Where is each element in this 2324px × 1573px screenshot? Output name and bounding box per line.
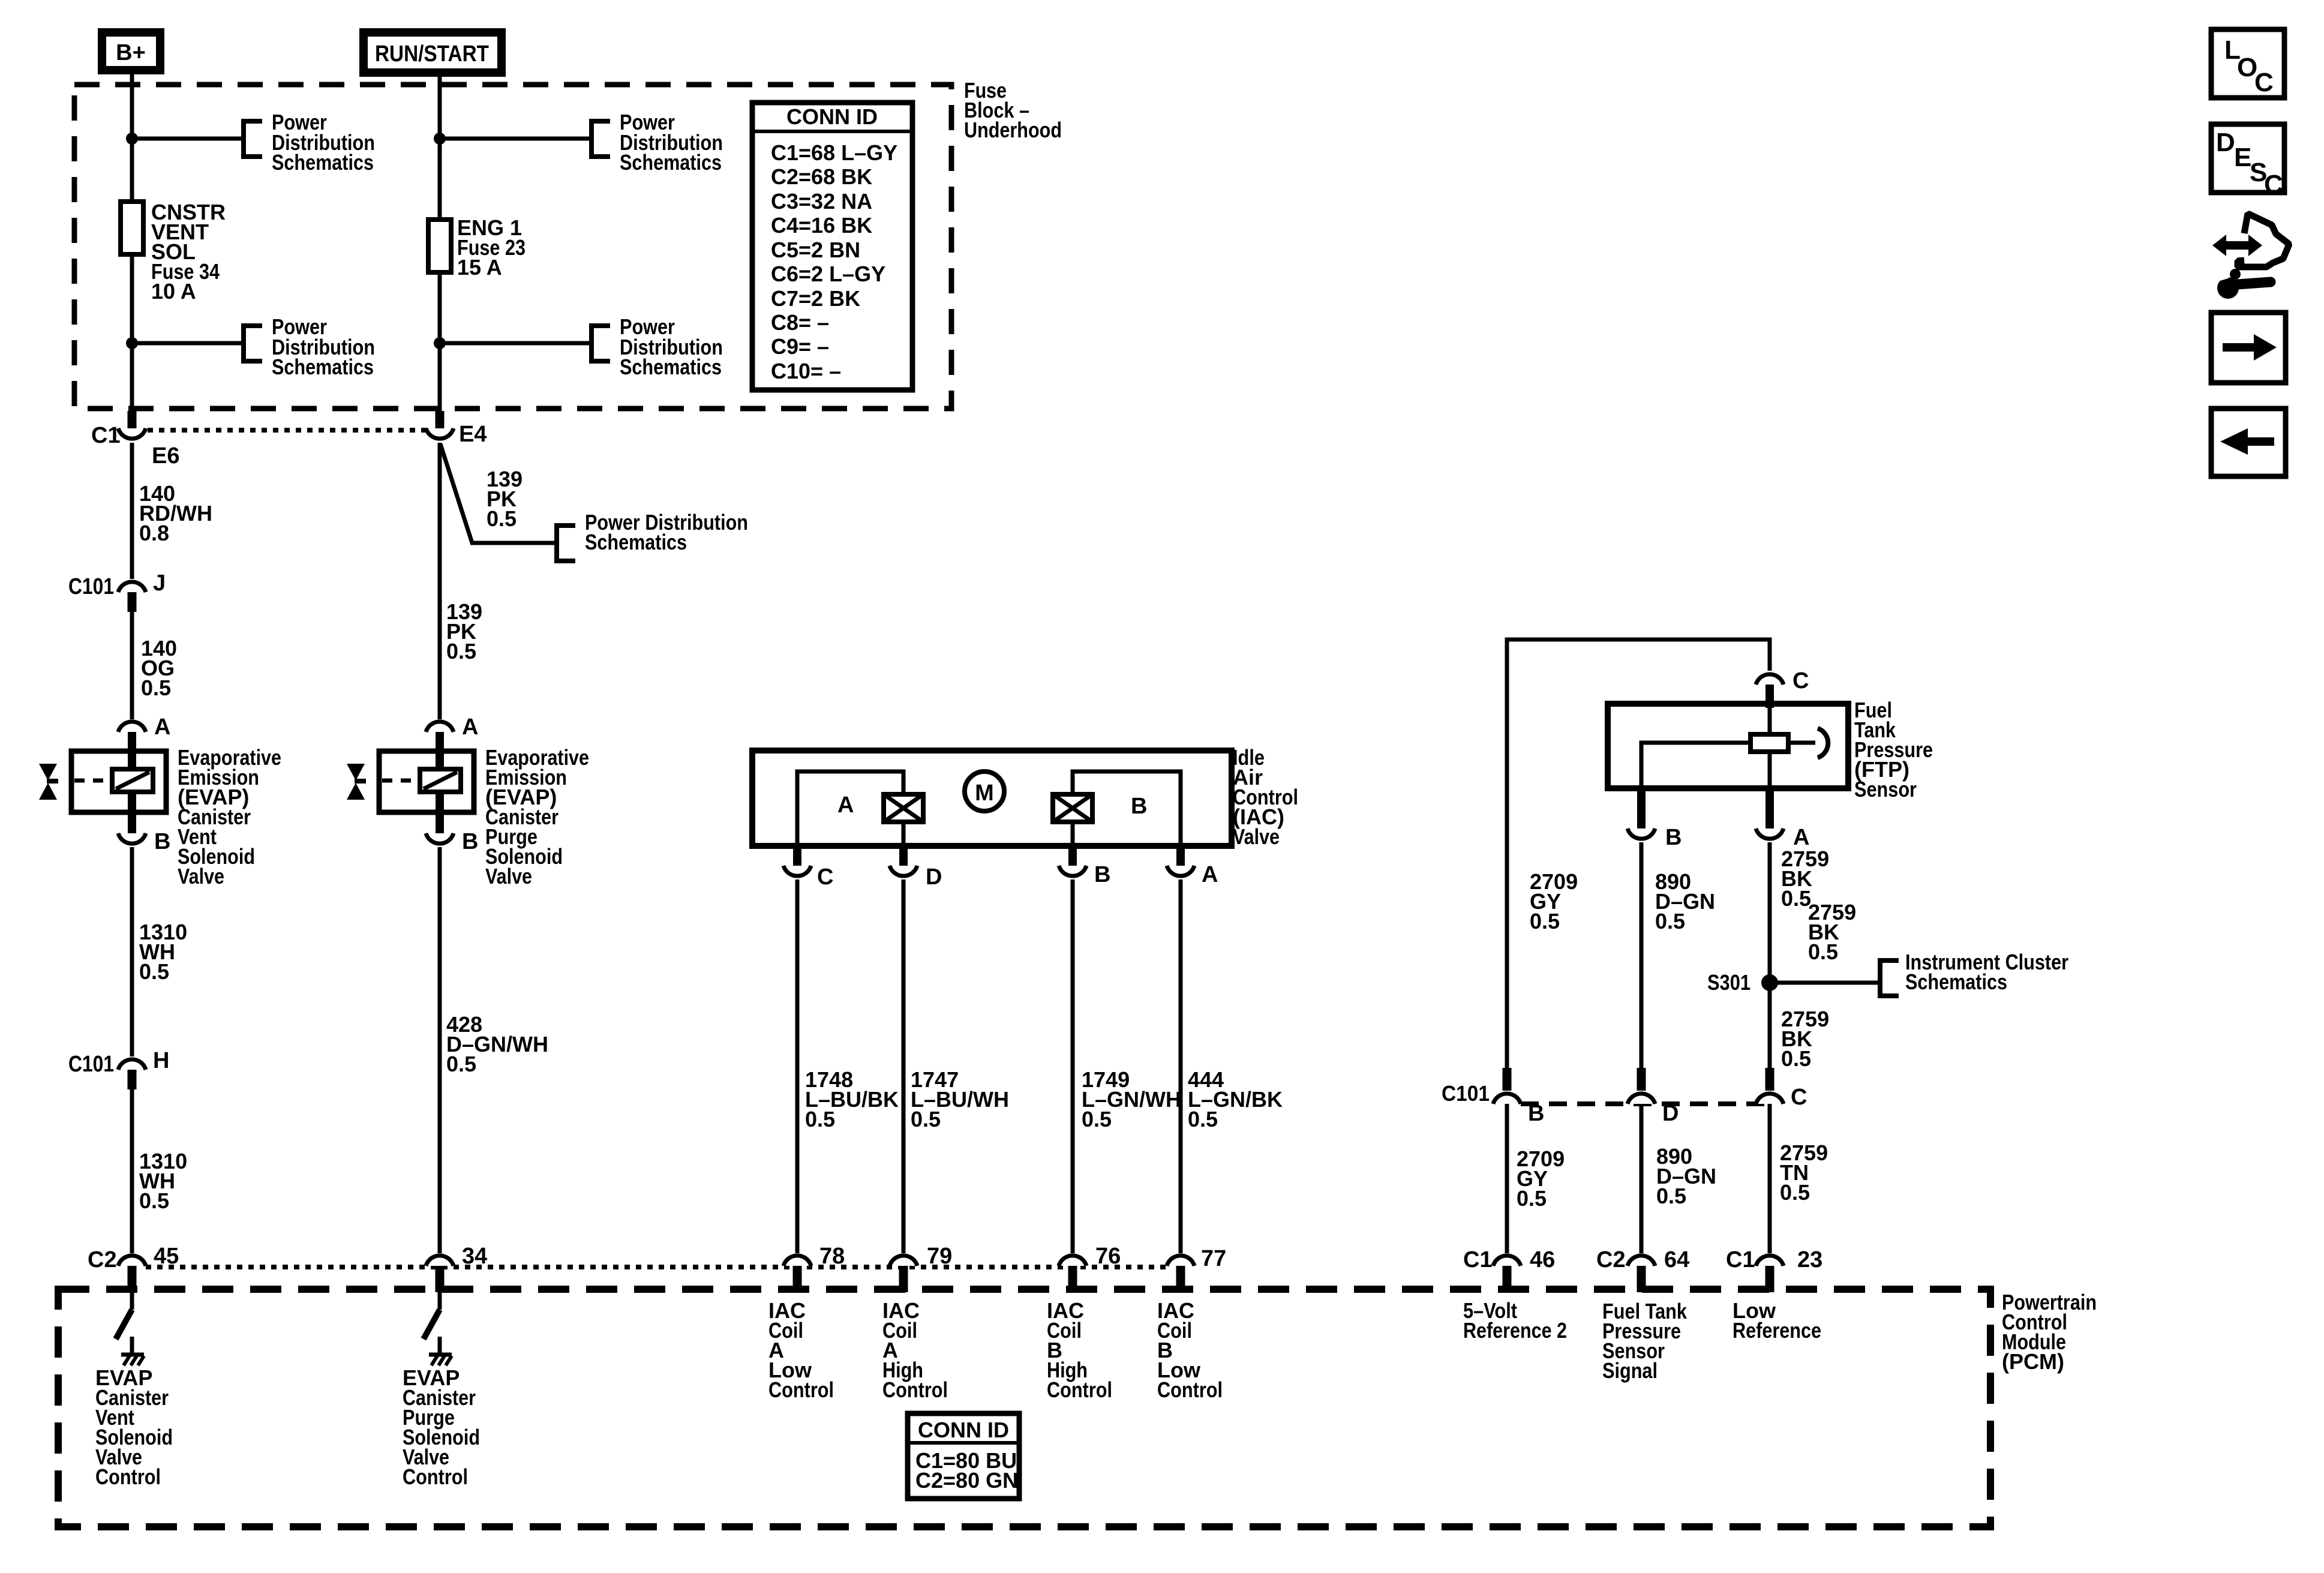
EVAP1 butterfly valve symbol [39,764,57,781]
fuse CNSTR VENT SOL rect [121,202,143,254]
wire EVAP2 B down to PCM pin 34 [438,847,442,1253]
icon right arrow box [2211,313,2286,383]
PCM pin 46 stub [1503,1266,1512,1292]
wire stub to upper-right power distribution bracket [440,137,591,141]
FTP pin A cup [1756,828,1783,839]
IAC pin C cup [783,866,811,876]
EVAP1 solenoid box [71,751,166,812]
svg-text:0.5: 0.5 [1517,1186,1547,1211]
C101 D stub [1637,1068,1646,1091]
svg-text:0.5: 0.5 [1655,909,1685,933]
icon DESC box [2211,124,2284,193]
FTP wiper arc [1818,728,1828,758]
EVAP2 coil rect with slash [420,769,461,792]
svg-text:0.5: 0.5 [1781,886,1811,911]
svg-text:C10= –: C10= – [771,359,841,383]
svg-text:Control: Control [1157,1377,1223,1402]
PCM driver switch for pin 34 [438,1292,442,1310]
connector E4 pin stub [436,411,445,430]
dotted connector line E6 to E4 [148,428,427,433]
wire C101 B down to PCM 46 [1505,1104,1509,1253]
PCM pin 77 stub [1176,1266,1185,1292]
svg-text:Reference 2: Reference 2 [1463,1318,1567,1343]
svg-text:B: B [154,829,170,854]
svg-text:B: B [1094,862,1110,887]
off-page bracket lower-right [591,326,610,361]
svg-text:0.5: 0.5 [805,1107,835,1131]
FTP pin B cup [1628,828,1655,839]
wire EVAP1 B down to C101 H [130,847,134,1056]
PCM dashed box [58,1289,1990,1527]
wire stub to upper-left power distribution bracket [132,137,244,141]
ground symbol PCM right [429,1353,452,1357]
svg-text:C101: C101 [68,1052,114,1077]
connector FTP pin C dome [1756,674,1783,685]
connector PCM pin 77 dome [1167,1256,1194,1266]
wire B+ to fuse CNSTR [130,74,134,202]
svg-text:C: C [1791,1085,1807,1110]
node junction RUN/START lower [434,337,446,349]
svg-text:C3=32 NA: C3=32 NA [771,189,872,214]
IAC pin C stub [793,848,801,866]
svg-text:0.5: 0.5 [1082,1107,1112,1131]
icon vehicle double arrow [2212,235,2262,256]
svg-text:Schematics: Schematics [620,355,722,379]
svg-text:Underhood: Underhood [964,118,1062,142]
svg-text:A: A [462,715,478,740]
icon left arrow box [2211,409,2286,476]
PCM driver switch for pin 45 [130,1292,134,1310]
FTP pin A stub [1765,788,1774,829]
PCM pin 78 stub [793,1266,802,1292]
wire 5V reference horizontal run [1507,640,1770,1068]
off-page bracket instrument cluster [1880,960,1899,996]
svg-text:0.5: 0.5 [1808,939,1838,964]
off-page bracket upper-right [591,121,610,157]
B+ power feed box [102,32,160,70]
PCM pin 76 stub [1068,1266,1077,1292]
EVAP2 butterfly valve symbol [347,764,365,781]
svg-text:Control: Control [1047,1377,1112,1402]
IAC motor M circle [965,772,1004,811]
FTP pin C stub [1765,685,1774,708]
svg-text:B: B [462,829,478,854]
icon vehicle outline [2238,214,2289,267]
wire IAC C to PCM 78 [795,879,800,1253]
ground symbol PCM left [121,1353,144,1357]
RUN/START power feed box [364,32,502,73]
IAC pin A cup [1167,866,1194,876]
CONN ID table top header separator [752,130,912,133]
svg-text:S301: S301 [1707,970,1750,995]
connector EVAP1 pin B cup [118,833,146,843]
connector C101 C dome [1756,1094,1783,1104]
connector E4 cup [426,428,454,439]
IAC coil B winding to pin B [1071,822,1075,848]
svg-text:Sensor: Sensor [1854,777,1917,801]
svg-text:C2=68 BK: C2=68 BK [771,164,872,189]
svg-text:Control: Control [95,1464,161,1489]
connector C101 D dome [1628,1094,1655,1104]
connector C1 E6 cup [118,428,146,439]
wire stub to lower-right power distribution bracket [440,341,591,346]
connector EVAP2 pin A dome [426,722,454,732]
svg-text:C2=80 GN: C2=80 GN [915,1468,1018,1493]
svg-text:B+: B+ [116,40,146,65]
node junction B+ upper [126,133,138,145]
wire stub to lower-left power distribution bracket [132,341,244,346]
EVAP1 coil rect with slash [112,769,153,792]
svg-text:Schematics: Schematics [272,355,374,379]
svg-text:A: A [837,792,854,818]
svg-text:15 A: 15 A [457,255,502,280]
svg-text:Control: Control [768,1377,834,1402]
svg-text:C4=16 BK: C4=16 BK [771,213,872,238]
dotted connector line PCM C2 row [146,1265,1167,1269]
svg-text:0.5: 0.5 [141,676,171,700]
svg-text:46: 46 [1530,1247,1555,1272]
IAC coil A winding [884,794,923,822]
svg-text:C: C [817,864,833,890]
svg-text:76: 76 [1095,1244,1121,1269]
IAC coil A loop wire [797,772,903,848]
wire fuse ENG1 to connector E4 stub [438,272,442,413]
wire E4 diagonal to power distribution stub [440,444,557,543]
off-page bracket power distribution mid [557,526,575,561]
FTP inner wires [1768,708,1772,734]
EVAP2 inner dashed line [382,779,419,783]
svg-text:0.8: 0.8 [139,521,169,545]
C101 C stub [1765,1068,1774,1091]
svg-text:C6=2 L–GY: C6=2 L–GY [771,262,885,286]
svg-text:B: B [1665,825,1682,850]
IAC pin B cup [1059,866,1086,876]
icon LOC box [2211,29,2284,98]
svg-text:C2: C2 [88,1247,117,1272]
PCM pin 64 stub [1637,1266,1646,1292]
svg-text:0.5: 0.5 [1530,909,1560,933]
Fuse Block - Underhood dashed box [74,85,951,409]
svg-text:0.5: 0.5 [487,506,517,531]
PCM pin 45 stub [128,1266,137,1292]
wire IAC A to PCM 77 [1179,879,1183,1253]
svg-text:Schematics: Schematics [272,150,374,175]
svg-text:C1: C1 [91,423,121,448]
IAC pin A stub [1176,848,1185,866]
svg-text:M: M [975,781,994,806]
wire RUN/START to fuse ENG1 [438,77,442,220]
S301 splice dot [1761,974,1778,991]
connector PCM pin 23 dome [1756,1256,1783,1266]
wire S301 to instrument cluster [1770,981,1880,985]
svg-text:10 A: 10 A [151,279,196,304]
EVAP2 pin A stub [436,732,444,770]
connector PCM pin 78 dome [783,1256,811,1266]
svg-text:C5=2 BN: C5=2 BN [771,238,860,262]
connector C101 J pin stub [128,592,137,612]
PCM pin 34 stub [436,1266,445,1292]
icon left arrow glyph [2220,428,2274,455]
wire E4 down to EVAP2 pin A [438,443,442,719]
svg-text:79: 79 [927,1244,952,1269]
svg-text:0.5: 0.5 [1781,1046,1811,1071]
node junction B+ lower [126,337,138,349]
svg-text:0.5: 0.5 [1188,1107,1218,1131]
svg-text:0.5: 0.5 [911,1107,941,1131]
svg-text:H: H [153,1048,169,1073]
svg-text:J: J [153,571,166,596]
svg-text:C: C [2264,170,2283,199]
wire IAC D to PCM 79 [902,879,906,1253]
svg-text:CONN ID: CONN ID [786,104,878,129]
connector PCM pin 76 dome [1059,1256,1086,1266]
svg-text:0.5: 0.5 [1656,1184,1686,1208]
svg-text:Signal: Signal [1602,1358,1658,1383]
svg-text:C8= –: C8= – [771,310,829,335]
wire C101 J down to EVAP1 pin A [130,612,134,719]
svg-text:A: A [1202,862,1218,887]
C101 B stub [1503,1068,1512,1091]
svg-text:0.5: 0.5 [139,1188,169,1213]
svg-text:0.5: 0.5 [139,959,169,984]
wire fuse CNSTR to connector E6 stub [130,254,134,413]
svg-text:Schematics: Schematics [620,150,722,175]
connector EVAP2 pin B cup [426,833,454,843]
svg-text:C2: C2 [1596,1247,1626,1272]
svg-text:Control: Control [403,1464,468,1489]
svg-text:C101: C101 [68,574,114,599]
connector PCM pin 45 dome [118,1256,146,1266]
svg-text:E4: E4 [459,422,487,447]
svg-text:C1: C1 [1463,1247,1493,1272]
svg-text:Valve: Valve [485,864,532,888]
svg-text:(PCM): (PCM) [2002,1349,2064,1374]
wire C101 H down to PCM pin 45 [130,1089,134,1253]
svg-text:B: B [1528,1101,1544,1126]
svg-text:D: D [2216,128,2235,157]
svg-text:B: B [1131,794,1147,819]
IAC valve box [752,751,1232,846]
EVAP1 pin A stub [128,732,136,770]
connector C1 E6 pin stub [128,411,137,430]
off-page bracket upper-left [244,121,262,157]
FTP pin B stub [1637,788,1646,829]
svg-text:0.5: 0.5 [1780,1180,1810,1205]
svg-text:Control: Control [882,1377,948,1402]
connector PCM pin 34 dome [426,1256,454,1266]
node junction RUN/START upper [434,133,446,145]
CONN ID bottom header separator [908,1441,1019,1445]
svg-text:Valve: Valve [178,864,224,888]
svg-text:C7=2 BK: C7=2 BK [771,286,860,311]
connector PCM pin 46 dome [1493,1256,1521,1266]
FTP resistor rect [1750,734,1788,752]
svg-text:0.5: 0.5 [446,639,476,664]
svg-text:Schematics: Schematics [585,530,687,554]
svg-text:78: 78 [819,1244,845,1269]
svg-text:Schematics: Schematics [1905,969,2007,994]
connector C101 B dome [1493,1094,1521,1104]
wire FTP A down to C101 C [1768,842,1772,1068]
wire C101 C down to PCM 23 [1768,1104,1772,1253]
svg-text:C101: C101 [1442,1081,1490,1106]
connector C101 J dome [118,582,146,592]
wire E6 down to C101 J [130,443,134,579]
svg-text:C1: C1 [1726,1247,1755,1272]
svg-text:C9= –: C9= – [771,334,829,359]
svg-text:C: C [1792,668,1809,694]
wire FTP B down to C101 D [1640,842,1644,1068]
CONN ID table top [752,103,912,390]
svg-text:C: C [2254,68,2274,97]
connector C101 H pin stub [128,1070,137,1089]
dashed connector line C101 row [1521,1101,1770,1106]
IAC pin B stub [1068,848,1077,866]
wire IAC B to PCM 76 [1071,879,1075,1253]
EVAP1 inner dashed line [74,779,111,783]
EVAP1 pin B stub [128,792,136,834]
svg-text:CONN ID: CONN ID [918,1418,1009,1442]
svg-text:77: 77 [1201,1246,1226,1271]
IAC coil B loop wire [1073,772,1181,848]
svg-text:E: E [2234,143,2251,172]
connector EVAP1 pin A dome [118,722,146,732]
svg-text:23: 23 [1797,1247,1822,1272]
IAC pin D stub [899,848,908,866]
IAC pin D cup [890,866,917,876]
CONN ID table bottom [908,1413,1019,1499]
svg-text:64: 64 [1664,1247,1689,1272]
PCM pin 23 stub [1765,1266,1774,1292]
fuse ENG1 rect [428,220,451,272]
connector PCM pin 64 dome [1628,1256,1655,1266]
svg-text:E6: E6 [152,443,179,469]
FTP sensor box [1608,704,1848,788]
svg-text:34: 34 [462,1244,487,1269]
svg-text:Valve: Valve [1233,824,1280,849]
wire C101 D down to PCM 64 [1640,1104,1644,1253]
icon wrench [2217,277,2239,299]
svg-text:D: D [926,864,942,890]
connector C101 H dome [118,1059,146,1070]
IAC coil B winding [1053,794,1092,822]
EVAP2 pin B stub [436,792,444,834]
svg-text:0.5: 0.5 [446,1052,476,1076]
svg-text:D: D [1662,1101,1679,1126]
icon right arrow glyph [2223,334,2277,361]
svg-text:Reference: Reference [1733,1318,1821,1343]
svg-text:A: A [154,715,170,740]
EVAP2 solenoid box [379,751,474,812]
PCM pin 79 stub [899,1266,908,1292]
svg-text:RUN/START: RUN/START [375,41,489,67]
IAC coil A winding to pin D [902,822,906,848]
connector PCM pin 79 dome [890,1256,917,1266]
svg-text:45: 45 [154,1244,179,1269]
svg-text:C1=68 L–GY: C1=68 L–GY [771,140,897,165]
off-page bracket lower-left [244,326,262,361]
